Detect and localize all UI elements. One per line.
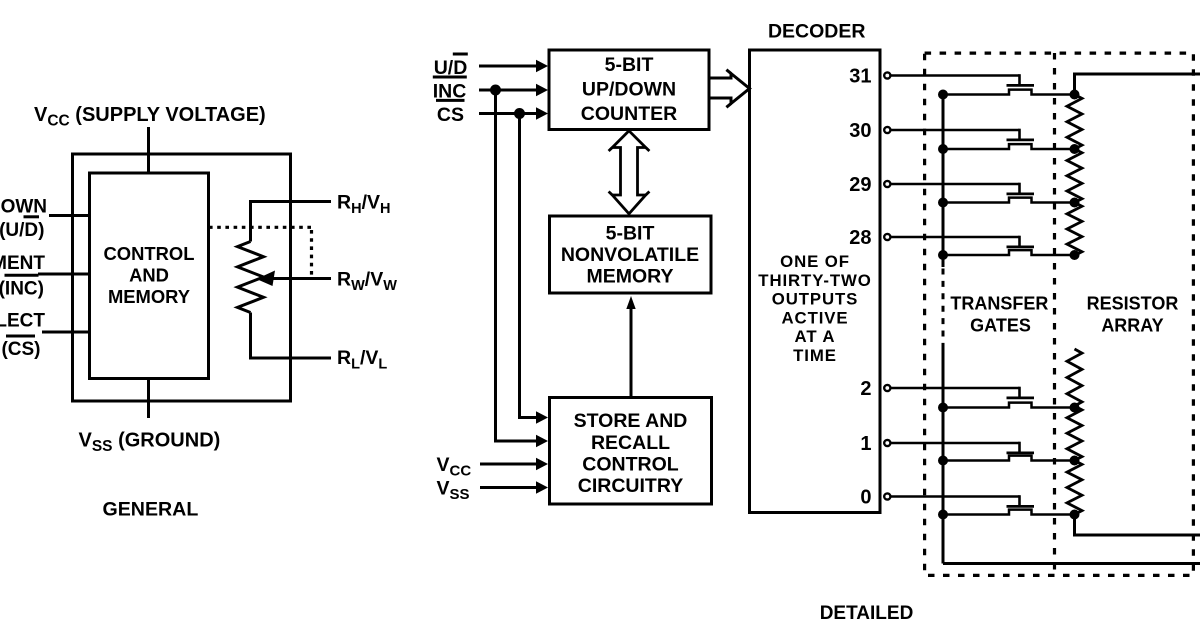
svg-text:5-BIT: 5-BIT xyxy=(605,54,654,76)
svg-text:ARRAY: ARRAY xyxy=(1101,316,1163,336)
svg-text:VCC​ (SUPPLY VOLTAGE): VCC​ (SUPPLY VOLTAGE) xyxy=(34,104,266,130)
svg-text:CIRCUITRY: CIRCUITRY xyxy=(578,475,683,497)
svg-text:MEMORY: MEMORY xyxy=(108,286,190,307)
svg-text:28: 28 xyxy=(849,227,871,249)
svg-text:TRANSFER: TRANSFER xyxy=(950,294,1048,314)
svg-text:AND: AND xyxy=(129,265,169,286)
svg-text:30: 30 xyxy=(849,120,871,142)
svg-text:CHIP SELECT: CHIP SELECT xyxy=(0,311,45,332)
svg-text:INCREMENT: INCREMENT xyxy=(0,253,45,274)
svg-text:(INC): (INC) xyxy=(0,279,44,300)
svg-text:GATES: GATES xyxy=(970,316,1031,336)
svg-text:U/D: U/D xyxy=(434,57,468,79)
svg-text:COUNTER: COUNTER xyxy=(581,103,677,125)
svg-text:1: 1 xyxy=(860,433,871,455)
svg-text:DECODER: DECODER xyxy=(768,21,866,43)
svg-text:STORE AND: STORE AND xyxy=(574,410,688,432)
svg-text:RESISTOR: RESISTOR xyxy=(1087,294,1179,314)
svg-text:MEMORY: MEMORY xyxy=(586,266,673,288)
svg-text:31: 31 xyxy=(849,66,871,88)
svg-text:CONTROL: CONTROL xyxy=(582,454,678,476)
svg-text:0: 0 xyxy=(860,487,871,509)
svg-text:GENERAL: GENERAL xyxy=(103,499,199,521)
svg-text:UP/DOWN: UP/DOWN xyxy=(582,79,676,101)
svg-text:ACTIVE: ACTIVE xyxy=(782,308,849,327)
svg-text:AT A: AT A xyxy=(795,327,836,346)
svg-text:ONE OF: ONE OF xyxy=(780,252,850,271)
svg-text:(U/D): (U/D) xyxy=(0,220,45,241)
svg-text:(CS): (CS) xyxy=(1,339,40,360)
svg-text:CONTROL: CONTROL xyxy=(104,243,195,264)
svg-text:TIME: TIME xyxy=(793,346,837,365)
svg-text:29: 29 xyxy=(849,174,871,196)
svg-text:5-BIT: 5-BIT xyxy=(606,223,655,245)
svg-text:NONVOLATILE: NONVOLATILE xyxy=(561,244,699,266)
svg-text:UP/DOWN: UP/DOWN xyxy=(0,197,47,218)
svg-text:2: 2 xyxy=(860,378,871,400)
svg-text:DETAILED: DETAILED xyxy=(820,603,914,624)
svg-text:CS: CS xyxy=(437,104,464,126)
svg-text:OUTPUTS: OUTPUTS xyxy=(772,290,858,309)
svg-text:INC: INC xyxy=(433,81,467,103)
svg-text:RECALL: RECALL xyxy=(591,432,670,454)
svg-text:THIRTY-TWO: THIRTY-TWO xyxy=(758,271,871,290)
